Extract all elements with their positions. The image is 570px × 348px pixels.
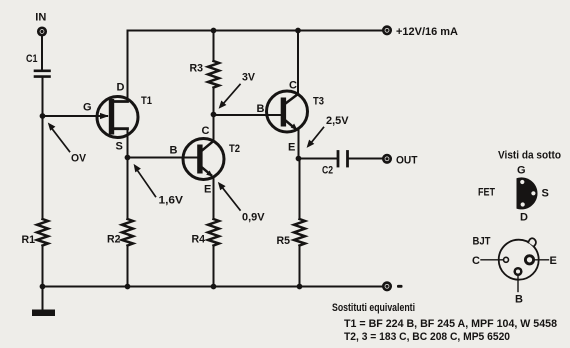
arrow 0V to gate node — [48, 123, 70, 152]
resistor R5 — [294, 159, 305, 287]
arrow 2,5V to E node — [307, 128, 324, 148]
svg-text:G: G — [83, 102, 92, 114]
svg-text:+12V/16 mA: +12V/16 mA — [396, 26, 458, 38]
svg-text:C: C — [289, 80, 297, 92]
node bottom R1 — [40, 284, 46, 290]
ground — [32, 310, 55, 317]
wire 3V node to T3 base — [214, 114, 281, 116]
wire E node to C2 — [299, 158, 337, 160]
svg-text:T2, 3 = 183 C, BC 208 C, MP5 6: T2, 3 = 183 C, BC 208 C, MP5 6520 — [344, 331, 510, 343]
svg-text:T1: T1 — [141, 95, 152, 107]
svg-text:B: B — [515, 294, 523, 306]
node S (1,6V) — [125, 155, 131, 161]
svg-text:1,6V: 1,6V — [159, 195, 184, 207]
svg-text:R3: R3 — [190, 63, 204, 75]
svg-text:T2: T2 — [229, 143, 240, 155]
label minus — [397, 285, 403, 288]
svg-text:S: S — [542, 188, 549, 200]
resistor R1 — [37, 219, 48, 287]
svg-text:E: E — [288, 142, 295, 154]
capacitor C2 — [338, 152, 348, 167]
svg-text:S: S — [116, 141, 123, 153]
terminal OUT — [383, 155, 390, 162]
wire C1 to gate node to R1 — [42, 78, 44, 220]
svg-text:2,5V: 2,5V — [326, 115, 349, 127]
resistor R2 — [122, 158, 133, 287]
svg-text:Sostituti equivalenti: Sostituti equivalenti — [332, 302, 415, 314]
arrow 3V to node — [219, 85, 240, 109]
svg-text:C: C — [472, 255, 480, 267]
wire B lead (BJT) — [517, 275, 519, 292]
svg-text:IN: IN — [35, 12, 46, 24]
resistor R3 — [208, 31, 219, 115]
svg-text:R1: R1 — [22, 234, 36, 246]
wire IN to C1 — [41, 36, 43, 69]
svg-text:FET: FET — [478, 187, 495, 199]
transistor T3 (NPN) — [267, 91, 308, 132]
wire T3 emitter to E node — [298, 130, 300, 159]
wire bottom rail — [43, 286, 384, 288]
svg-text:E: E — [550, 255, 557, 267]
svg-text:OV: OV — [71, 153, 87, 165]
BJT package (seen from below) — [499, 238, 539, 279]
svg-text:G: G — [517, 165, 526, 177]
terminal +12V — [383, 27, 390, 34]
svg-text:T3: T3 — [313, 96, 324, 108]
terminal minus — [383, 283, 390, 290]
svg-text:R2: R2 — [107, 234, 121, 246]
svg-text:C2: C2 — [322, 165, 333, 177]
svg-text:T1 = BF 224 B, BF 245 A, MPF 1: T1 = BF 224 B, BF 245 A, MPF 104, W 5458 — [344, 318, 557, 330]
svg-text:BJT: BJT — [473, 236, 491, 248]
transistor T2 (NPN) — [183, 139, 224, 180]
node gate 0V junction — [40, 113, 46, 119]
resistor R4 — [208, 219, 219, 287]
svg-text:R4: R4 — [192, 234, 206, 246]
terminal IN — [38, 28, 45, 35]
svg-text:D: D — [520, 212, 528, 224]
wire T1 source to S node — [127, 129, 129, 158]
node bottom R5 — [297, 284, 303, 290]
wire T2 collector up to 3V node — [213, 115, 215, 142]
wire gate node to T1 gate — [43, 115, 108, 117]
node E 2,5V — [296, 156, 302, 162]
svg-text:D: D — [117, 82, 125, 94]
svg-text:B: B — [170, 145, 178, 157]
wire T2 emitter to R4 — [213, 177, 215, 219]
FET package (seen from below) — [517, 177, 538, 209]
wire E lead (BJT) — [534, 259, 549, 261]
svg-text:C: C — [202, 125, 210, 137]
node 3V — [211, 112, 217, 118]
wire S node to T2 base — [128, 157, 198, 159]
arrow 1,6V to S node — [134, 164, 156, 197]
arrow 0,9V to T2 emitter — [218, 182, 240, 210]
svg-text:Visti da sotto: Visti da sotto — [498, 150, 561, 162]
node bottom R4 — [211, 284, 217, 290]
svg-text:E: E — [204, 184, 211, 196]
wire to ground — [42, 287, 44, 311]
svg-text:3V: 3V — [242, 72, 256, 84]
wire top rail — [128, 30, 384, 32]
node bottom R2 — [125, 284, 131, 290]
transistor T1 (JFET) — [97, 97, 138, 138]
svg-text:0,9V: 0,9V — [242, 212, 265, 224]
svg-text:C1: C1 — [26, 53, 38, 65]
svg-text:OUT: OUT — [396, 155, 418, 167]
node T3 collector top — [295, 28, 301, 34]
wire T3 collector to top rail — [297, 31, 299, 95]
capacitor C1 — [35, 71, 50, 77]
wire C lead (BJT) — [481, 259, 504, 261]
wire C2 to OUT — [349, 158, 383, 160]
svg-text:R5: R5 — [277, 235, 291, 247]
wire T1 drain up to top rail — [127, 31, 129, 102]
svg-text:B: B — [257, 103, 265, 115]
gate arrow of T1 — [100, 113, 109, 119]
node R3 top — [211, 28, 217, 34]
